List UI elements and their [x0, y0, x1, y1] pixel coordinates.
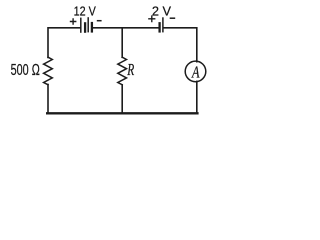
battery 2V plate short [158, 22, 160, 32]
svg-text:2 V: 2 V [152, 4, 172, 19]
svg-text:12 V: 12 V [74, 4, 96, 19]
wire top-left segment [48, 28, 80, 58]
minus sign 12V [97, 20, 102, 22]
plus sign 12V [70, 18, 77, 25]
resistor 500 ohm [44, 57, 53, 84]
wire top-middle segment [93, 27, 159, 29]
ammeter A1 circle [185, 61, 206, 82]
svg-text:500 Ω: 500 Ω [11, 62, 40, 79]
wire middle-branch bottom [121, 85, 123, 112]
svg-text:R: R [127, 60, 135, 79]
battery 2V plate long [162, 17, 164, 32]
battery 12V plate short 1 [84, 22, 86, 33]
plus sign 2V [148, 15, 155, 22]
wire top-right segment [164, 28, 197, 62]
resistor R [118, 57, 127, 84]
wire right-bottom segment [196, 81, 198, 112]
svg-text:A: A [191, 62, 200, 81]
battery 12V plate short 2 [91, 22, 93, 33]
wire left-bottom segment [47, 85, 49, 113]
minus sign 2V [170, 17, 176, 19]
wire bottom [47, 112, 197, 114]
battery 12V plate long 2 [87, 17, 89, 32]
wire middle-branch top [121, 28, 123, 58]
battery 12V plate long 1 [80, 18, 82, 33]
